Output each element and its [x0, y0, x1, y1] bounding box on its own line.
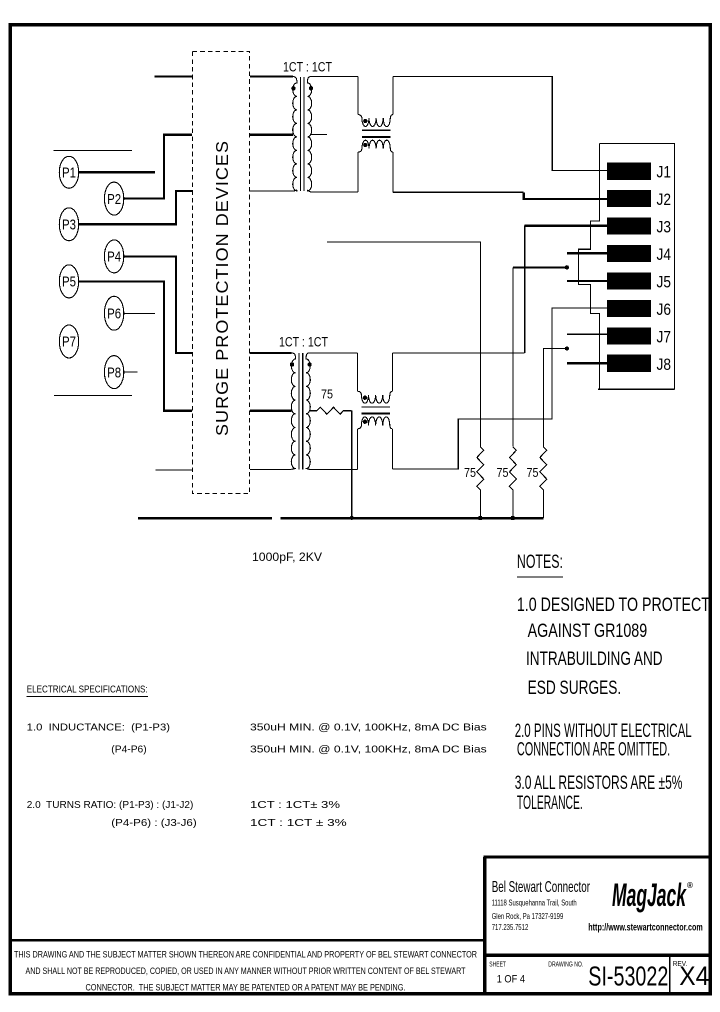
wire J8 pin — [567, 362, 607, 364]
wire node J4-J5 to resistor R2 — [513, 266, 567, 268]
svg-text:350uH MIN. @ 0.1V, 100KHz, 8mA: 350uH MIN. @ 0.1V, 100KHz, 8mA DC Bias — [250, 744, 487, 756]
svg-text:J8: J8 — [657, 356, 672, 374]
wire stub into SPD top-left — [154, 75, 192, 77]
junction dot node J4-J5 — [565, 265, 569, 269]
wire choke L1 top to J1 — [393, 77, 607, 171]
svg-text:J4: J4 — [657, 246, 672, 264]
wire P8 stub — [124, 371, 138, 373]
connector pin J3 pad — [607, 218, 651, 235]
svg-text:1.0 DESIGNED TO PROTECT: 1.0 DESIGNED TO PROTECT — [517, 595, 710, 616]
svg-text:2.0 TURNS RATIO: (P1-P3) : (J: 2.0 TURNS RATIO: (P1-P3) : (J1-J2) — [27, 799, 194, 811]
connector pin J4 pad — [607, 245, 651, 262]
wire T2 secondary top to choke L2 — [309, 352, 357, 354]
junction square R2 bus — [511, 516, 515, 520]
svg-text:J6: J6 — [657, 301, 672, 319]
transformer T2 primary phase dot — [290, 362, 294, 366]
wire stub bottom-left below P8 — [54, 394, 132, 396]
wire T1 secondary center tap stub — [311, 133, 328, 135]
svg-text:P8: P8 — [107, 364, 121, 381]
resistor R3 75 ohm zigzag — [540, 447, 547, 518]
choke L1 bottom winding — [358, 140, 393, 152]
surge protection devices box U1 — [193, 52, 250, 494]
title block outline — [483, 857, 711, 993]
choke L1 bottom winding phase dot — [363, 143, 367, 147]
wire choke L1 bottom to J2 — [393, 191, 524, 193]
junction dot R4 bus — [350, 516, 354, 520]
wire stub top-left above P1 — [54, 149, 132, 151]
wire node J7-J8 to resistor R3 — [543, 349, 567, 447]
port P6 — [104, 296, 123, 330]
svg-text:ESD SURGES.: ESD SURGES. — [528, 678, 622, 699]
svg-text:J1: J1 — [657, 164, 672, 182]
svg-text:1000pF, 2KV: 1000pF, 2KV — [252, 550, 322, 564]
choke L2 bottom winding phase dot — [363, 420, 367, 424]
svg-text:SURGE PROTECTION DEVICES: SURGE PROTECTION DEVICES — [212, 140, 232, 436]
disclaimer box top edge — [10, 939, 485, 941]
choke L2 top winding phase dot — [363, 396, 367, 400]
svg-text:DRAWING NO.: DRAWING NO. — [548, 960, 583, 969]
choke L2 output verticals — [357, 429, 359, 469]
svg-text:MagJack: MagJack — [612, 877, 687, 913]
wire SPD to T1 primary center tap — [250, 134, 293, 136]
svg-text:11118 Susquehanna Trail, South: 11118 Susquehanna Trail, South — [492, 898, 577, 908]
wire T1 secondary bottom to choke L1 — [311, 191, 358, 193]
wire T1 secondary top to choke L1 — [311, 76, 358, 78]
svg-text:Bel Stewart Connector: Bel Stewart Connector — [492, 879, 591, 896]
port P8 — [104, 356, 123, 389]
svg-text:INTRABUILDING AND: INTRABUILDING AND — [526, 649, 663, 670]
svg-text:J7: J7 — [657, 328, 672, 346]
wire T2 center tap to resistor R4 — [309, 410, 317, 412]
port P4 — [104, 240, 123, 273]
transformer T2 core — [298, 353, 300, 469]
choke L2 core — [361, 406, 389, 408]
svg-text:®: ® — [687, 881, 693, 890]
connector shield box outline — [599, 144, 674, 390]
svg-text:P4: P4 — [107, 249, 121, 266]
transformer T2 secondary winding — [306, 353, 310, 469]
svg-text:SI-53022: SI-53022 — [588, 961, 668, 992]
capacitor bus wire right segment — [281, 517, 544, 520]
port P5 — [59, 265, 78, 298]
transformer T2 primary winding — [291, 353, 295, 469]
svg-text:(P4-P6) : (J3-J6): (P4-P6) : (J3-J6) — [111, 817, 196, 829]
wire J4 pin — [567, 252, 607, 254]
wire SPD to T2 primary center tap — [250, 410, 292, 412]
svg-text:Glen Rock, Pa 17327-9199: Glen Rock, Pa 17327-9199 — [492, 911, 564, 921]
svg-text:1.0 INDUCTANCE: (P1-P3): 1.0 INDUCTANCE: (P1-P3) — [27, 722, 170, 734]
notes heading underline — [517, 576, 563, 578]
svg-text:CONNECTOR. THE SUBJECT MATTER: CONNECTOR. THE SUBJECT MATTER MAY BE PAT… — [86, 983, 406, 994]
electrical specifications underline — [27, 696, 148, 698]
svg-text:P5: P5 — [62, 274, 76, 291]
svg-text:75: 75 — [464, 465, 476, 480]
capacitor bus wire left segment — [138, 517, 272, 520]
connector pin J8 pad — [607, 355, 651, 372]
connector pin J6 pad — [607, 300, 651, 317]
port P1 — [59, 156, 78, 188]
choke L2 bottom winding — [358, 417, 393, 429]
svg-text:SHEET: SHEET — [489, 960, 506, 969]
svg-text:350uH MIN. @ 0.1V, 100KHz, 8mA: 350uH MIN. @ 0.1V, 100KHz, 8mA DC Bias — [250, 722, 487, 734]
svg-text:J5: J5 — [657, 274, 672, 292]
svg-text:3.0 ALL RESISTORS ARE ±5%: 3.0 ALL RESISTORS ARE ±5% — [515, 773, 683, 794]
connector pin J2 pad — [607, 190, 651, 207]
connector shield box bottom edge — [598, 388, 675, 390]
svg-text:1 OF 4: 1 OF 4 — [497, 974, 525, 986]
choke L2 top winding — [358, 391, 393, 403]
wire T2 secondary bottom to choke L2 — [309, 468, 357, 470]
wire P3 to SPD — [79, 191, 193, 224]
svg-text:P6: P6 — [107, 305, 121, 322]
connector shield box left edge with jogs — [579, 144, 600, 390]
port P7 — [59, 325, 78, 358]
svg-text:1CT : 1CT: 1CT : 1CT — [283, 60, 332, 75]
choke L1 input verticals — [357, 77, 359, 115]
wire choke L2 bottom to J6 — [393, 308, 608, 469]
choke L1 top winding phase dot — [363, 119, 367, 123]
svg-text:AND SHALL NOT BE REPRODUCED, C: AND SHALL NOT BE REPRODUCED, COPIED, OR … — [26, 966, 466, 977]
svg-text:717.235.7512: 717.235.7512 — [492, 922, 529, 932]
wire P2 to SPD — [124, 135, 192, 199]
transformer T2 secondary phase dot — [307, 362, 311, 366]
svg-text:J3: J3 — [657, 219, 672, 237]
connector pin J1 pad — [607, 163, 651, 180]
resistor R4 75 ohm zigzag — [317, 407, 352, 414]
transformer T1 primary phase dot — [291, 86, 295, 90]
svg-text:P1: P1 — [62, 165, 76, 182]
choke L1 output verticals — [357, 152, 359, 192]
wire T1 node to resistor R1 — [327, 242, 480, 447]
junction square R1 bus — [479, 516, 483, 520]
connector pin J5 pad — [607, 272, 651, 289]
connector pin J7 pad — [607, 327, 651, 344]
port P3 — [59, 208, 78, 241]
wire SPD to T2 primary bottom — [250, 468, 292, 470]
wire SPD to T1 primary bottom — [250, 190, 293, 192]
svg-text:CONNECTION ARE OMITTED.: CONNECTION ARE OMITTED. — [517, 739, 670, 760]
svg-text:75: 75 — [497, 465, 509, 480]
choke L1 top winding — [358, 115, 393, 127]
choke L2 input verticals — [357, 353, 359, 391]
svg-text:1CT : 1CT: 1CT : 1CT — [279, 335, 328, 350]
svg-text:75: 75 — [527, 465, 539, 480]
svg-text:ELECTRICAL SPECIFICATIONS:: ELECTRICAL SPECIFICATIONS: — [27, 684, 148, 696]
port P2 — [104, 182, 123, 215]
svg-text:P7: P7 — [62, 334, 76, 351]
svg-text:P2: P2 — [107, 191, 121, 208]
wire P5 to SPD — [79, 281, 193, 410]
wire resistor R4 to capacitor bus — [351, 411, 353, 518]
wire J5 pin — [567, 280, 607, 282]
svg-text:J2: J2 — [657, 191, 672, 209]
transformer T1 secondary winding — [308, 77, 312, 193]
wire SPD to T2 primary top — [250, 352, 292, 354]
svg-text:(P4-P6): (P4-P6) — [111, 744, 146, 756]
svg-text:75: 75 — [321, 387, 333, 402]
svg-text:P3: P3 — [62, 217, 76, 234]
svg-text:1CT : 1CT± 3%: 1CT : 1CT± 3% — [250, 799, 340, 811]
resistor R1 75 ohm zigzag — [477, 447, 484, 518]
svg-text:THIS DRAWING AND THE SUBJECT M: THIS DRAWING AND THE SUBJECT MATTER SHOW… — [14, 950, 477, 961]
svg-text:X4: X4 — [679, 961, 709, 991]
wire P1 stub — [79, 171, 155, 173]
resistor R2 75 ohm zigzag — [509, 447, 516, 518]
svg-text:1CT : 1CT ± 3%: 1CT : 1CT ± 3% — [250, 817, 347, 829]
svg-text:NOTES:: NOTES: — [517, 552, 563, 573]
svg-text:http://www.stewartconnector.co: http://www.stewartconnector.com — [588, 922, 702, 934]
svg-text:AGAINST GR1089: AGAINST GR1089 — [528, 621, 648, 642]
wire choke L2 top to J3 — [393, 352, 525, 354]
wire P6 stub — [124, 312, 155, 314]
wire J7 pin — [567, 333, 607, 335]
junction dot node J7-J8 — [565, 347, 569, 351]
choke L1 core — [362, 129, 390, 131]
transformer T1 primary winding — [293, 77, 297, 192]
transformer T1 core — [299, 77, 301, 191]
wire SPD to T1 primary top — [250, 75, 293, 77]
wire P4 to SPD — [124, 256, 192, 353]
wire stub into SPD at lower-left — [156, 469, 193, 471]
transformer T1 secondary phase dot — [309, 86, 313, 90]
svg-text:TOLERANCE.: TOLERANCE. — [517, 793, 583, 814]
